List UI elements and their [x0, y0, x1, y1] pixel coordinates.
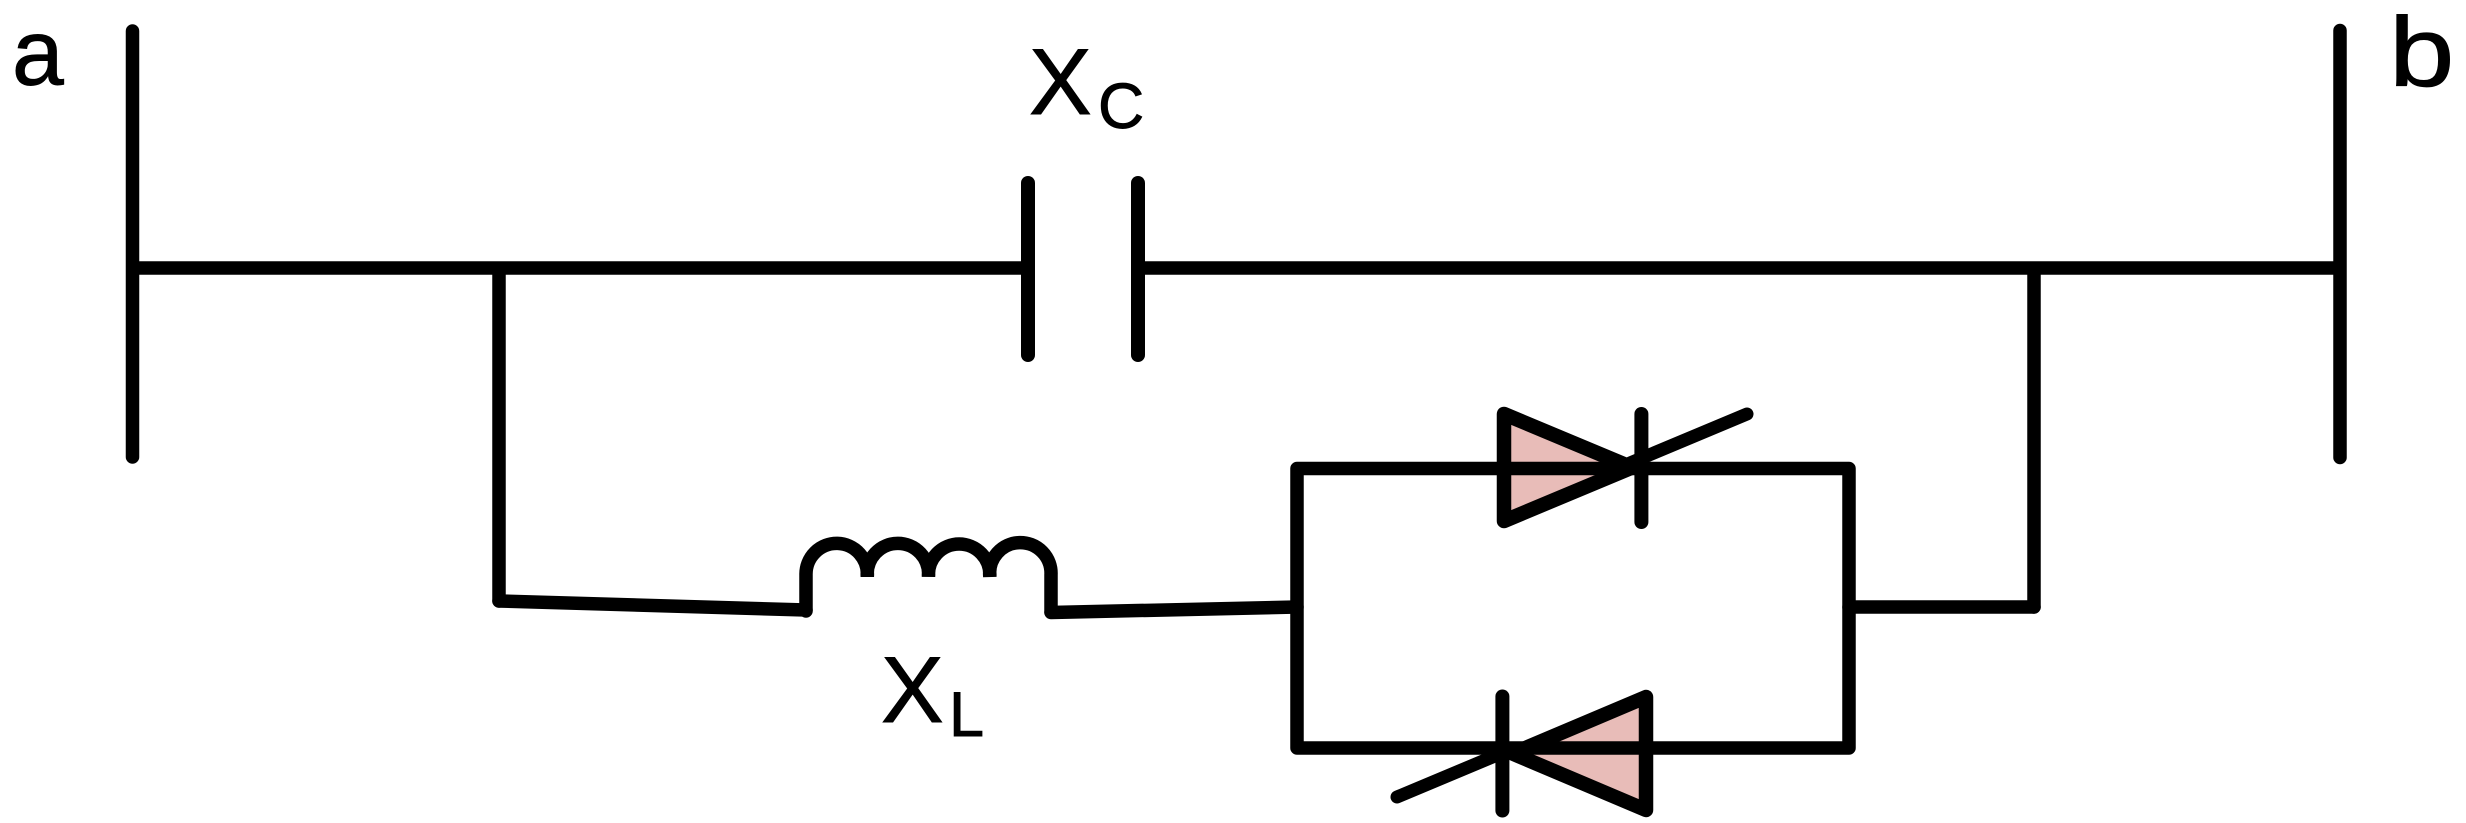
svg-text:a: a: [12, 1, 64, 105]
svg-text:b: b: [2389, 0, 2454, 107]
svg-text:C: C: [1098, 70, 1144, 142]
svg-text:L: L: [949, 680, 984, 750]
svg-text:X: X: [881, 637, 944, 742]
svg-text:X: X: [1029, 29, 1092, 134]
